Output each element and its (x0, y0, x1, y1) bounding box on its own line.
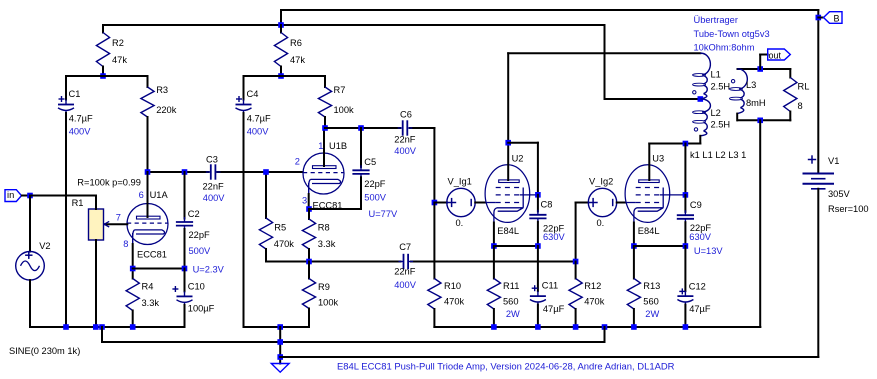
resistor R13 (627, 246, 640, 327)
wire secondary to ground (x=760.2) (759, 120, 761, 327)
node junction (685.4,143.5) (683, 141, 689, 147)
svg-text:2: 2 (295, 157, 300, 167)
pin 7 (U1A grid) (116, 213, 121, 223)
wire V_Ig1 to U2 grid (475, 202, 485, 204)
svg-text:R6: R6 (290, 38, 302, 48)
pin 8 (U1A cathode) (123, 239, 128, 249)
resistor R2 (96, 25, 109, 76)
wire U1A cathode row (y=268.5) (133, 268, 185, 270)
svg-text:0.: 0. (456, 218, 464, 228)
value 47k (R2) (112, 55, 127, 65)
wire jog x=102 down (101, 327, 103, 342)
svg-text:47k: 47k (112, 55, 127, 65)
node junction (575.6,327) (573, 324, 579, 330)
rating 400V (C3) (203, 193, 226, 203)
svg-text:22pF: 22pF (364, 179, 386, 189)
svg-text:1: 1 (318, 141, 323, 151)
pentode U2 (485, 165, 538, 223)
node junction (280.2,357) (277, 354, 283, 360)
svg-text:C3: C3 (206, 155, 218, 165)
node junction (604.5,327) (602, 324, 608, 330)
triode U1A (127, 204, 168, 245)
node junction (493.9,246) (491, 243, 497, 249)
svg-text:2.5H: 2.5H (711, 82, 731, 92)
node junction (434.4,202.5) (432, 200, 438, 206)
value 2.5H (L1) (711, 82, 731, 92)
node junction (280.2,327) (277, 324, 283, 330)
node junction (685.4,194.9) (683, 192, 689, 198)
svg-text:400V: 400V (69, 127, 92, 137)
U2 plate lead (507, 143, 509, 180)
label V_Ig2 (589, 177, 613, 187)
node junction (147.5,172) (145, 169, 151, 175)
wire B+ second rail (y=25) (103, 24, 605, 26)
U1B cathode lead (308, 183, 310, 209)
node junction (66,327) (63, 324, 69, 330)
node junction (493.9,327) (491, 324, 497, 330)
node junction (685.4,327) (683, 324, 689, 330)
svg-text:22pF: 22pF (189, 230, 211, 240)
wire C6 out down (x=434.4) (433, 128, 435, 203)
rating 500V (C2) (189, 246, 212, 256)
svg-text:U1A: U1A (150, 190, 169, 200)
value 0. (V_Ig1) (456, 218, 464, 228)
svg-text:V_Ig2: V_Ig2 (589, 177, 613, 187)
svg-text:305V: 305V (828, 189, 851, 199)
inductor L2 (693, 99, 711, 144)
label R4 (142, 282, 154, 292)
value 8 (RL) (798, 101, 803, 111)
capacitor C5 (352, 128, 369, 209)
wire U2 plate node up (x=508.2) (507, 53, 509, 142)
svg-text:R7: R7 (334, 85, 346, 95)
voltage source V_Ig1 (447, 188, 475, 216)
wire ground rail left (y=327) (30, 326, 185, 328)
op text U=2.3V (193, 264, 225, 274)
svg-text:470k: 470k (274, 239, 295, 249)
wire C1-R3 (y=76) (66, 75, 148, 77)
resistor R3 (141, 76, 154, 172)
svg-text:E84L ECC81 Push-Pull Triode Am: E84L ECC81 Push-Pull Triode Amp, Version… (337, 361, 675, 372)
rating 400V (C4) (247, 127, 270, 137)
wire B+ right drop (x=818.3) (817, 10, 819, 172)
label R8 (318, 223, 330, 233)
rating 630V (C9) (689, 232, 712, 242)
svg-text:U=2.3V: U=2.3V (193, 264, 225, 274)
resistor R10 (428, 203, 441, 328)
svg-text:0.: 0. (597, 218, 605, 228)
svg-text:SINE(0 230m 1k): SINE(0 230m 1k) (9, 346, 80, 356)
svg-text:500V: 500V (189, 246, 212, 256)
wire secondary top (y=69) (738, 68, 791, 70)
wire in node to R1 top (30, 195, 96, 197)
L3 phase dot (731, 80, 734, 83)
value 560 (R13) (643, 297, 659, 307)
svg-text:220k: 220k (156, 105, 177, 115)
svg-text:R8: R8 (318, 223, 330, 233)
resistor R6 (274, 25, 287, 76)
rating 400V (C1) (69, 127, 92, 137)
svg-text:8: 8 (798, 101, 803, 111)
node junction (361,128) (358, 125, 364, 131)
capacitor C10 (polar) (172, 269, 192, 328)
node junction (281,25) (278, 22, 284, 28)
wire ground rail low (y=357) (280, 356, 818, 358)
value 100k (R7) (334, 105, 355, 115)
wire C4/R9 ground segment (y=327) (244, 326, 310, 328)
value 2.5H (L2) (711, 120, 731, 130)
wire V_Ig2 to U3 grid (617, 202, 626, 204)
label R11 (503, 281, 519, 291)
inductor L3 (730, 69, 748, 120)
label R3 (156, 85, 168, 95)
pin 2 (U1B grid) (295, 157, 300, 167)
label C4 (247, 89, 259, 99)
svg-text:630V: 630V (543, 232, 566, 242)
svg-text:400V: 400V (203, 193, 226, 203)
label R10 (444, 281, 461, 291)
U1A plate lead (147, 172, 149, 217)
label C5 (364, 157, 376, 167)
pin 6 (U1A plate) (139, 190, 144, 200)
wire V_Ig1 left lead (434, 202, 447, 204)
svg-text:C2: C2 (188, 209, 200, 219)
wire V_Ig2 left lead (576, 202, 589, 204)
wire U3 plate row (y=143.5) (649, 143, 700, 145)
label L1 (711, 70, 721, 80)
svg-text:U=13V: U=13V (694, 246, 723, 256)
value 470k (R12) (584, 297, 605, 307)
wire in-flag to node (22, 195, 30, 197)
svg-text:U2: U2 (512, 153, 524, 163)
U3 cathode lead (633, 223, 635, 247)
svg-text:560: 560 (643, 297, 659, 307)
node junction (633.9,246) (631, 243, 637, 249)
resistor R7 (318, 76, 331, 128)
svg-text:R11: R11 (503, 281, 519, 291)
svg-text:2W: 2W (645, 309, 659, 319)
rating 2W (R13) (645, 309, 659, 319)
svg-text:630V: 630V (689, 232, 712, 242)
capacitor C3 (206, 164, 221, 179)
rating 2W (R11) (506, 309, 520, 319)
comment Übertrager (694, 15, 738, 25)
svg-text:E84L: E84L (638, 226, 660, 236)
svg-text:L3: L3 (746, 80, 756, 90)
label R9 (318, 282, 330, 292)
param R=100k p=0.99 (R1) (77, 177, 141, 187)
svg-text:4.7µF: 4.7µF (247, 114, 271, 124)
node junction (103,76) (100, 73, 106, 79)
svg-text:R5: R5 (274, 223, 286, 233)
title comment E84L ECC81 Push-Pull Triode Amp (337, 361, 675, 372)
svg-text:R=100k p=0.99: R=100k p=0.99 (77, 177, 141, 187)
node junction (760.2,120.3) (757, 118, 763, 124)
node junction (280.2,342) (277, 339, 283, 345)
svg-text:L1: L1 (711, 70, 721, 80)
label C2 (188, 209, 200, 219)
svg-text:4.7µF: 4.7µF (69, 114, 93, 124)
svg-text:Tube-Town otg5v3: Tube-Town otg5v3 (694, 29, 770, 39)
label R13 (643, 281, 660, 291)
svg-text:R9: R9 (318, 282, 330, 292)
value 22nF (C3) (203, 182, 225, 192)
rating 630V (C8) (543, 232, 566, 242)
svg-text:3: 3 (302, 196, 307, 206)
svg-text:22nF: 22nF (394, 134, 416, 144)
label C3 (206, 155, 218, 165)
value 22pF (C9) (690, 223, 712, 233)
label C11 (542, 281, 558, 291)
wire U2 cathode row (y=246) (494, 245, 538, 247)
svg-text:C5: C5 (364, 157, 376, 167)
svg-text:22nF: 22nF (394, 266, 416, 276)
wire B+ branch down (x=604.5) (604, 25, 606, 99)
wire U2 plate to screen jog (508, 143, 538, 195)
resistor R5 (259, 172, 272, 262)
value 8mH (L3) (746, 98, 766, 108)
wire ground rail mid-right (y=327) (434, 326, 760, 328)
value 220k (R3) (156, 105, 177, 115)
svg-text:B: B (834, 13, 840, 23)
value 22pF (C8) (543, 223, 565, 233)
potentiometer R1 (89, 196, 110, 328)
value 3.3k (R8) (318, 239, 336, 249)
label C7 (399, 242, 411, 252)
svg-text:L2: L2 (711, 108, 721, 118)
L1 phase dot (693, 91, 696, 94)
value 22nF (C7) (394, 266, 416, 276)
svg-text:100µF: 100µF (188, 304, 215, 314)
svg-text:out: out (769, 50, 782, 60)
svg-text:R4: R4 (142, 282, 154, 292)
svg-text:400V: 400V (394, 146, 417, 156)
wire out stub (760, 55, 768, 70)
comment 10kOhm:8ohm (694, 43, 755, 53)
node junction (132.7,268.5) (130, 266, 136, 272)
wire cathode node row (y=261.5) (266, 261, 576, 263)
value 100µF (C10) (188, 304, 215, 314)
wire jog x=604.5 down (604, 327, 606, 342)
svg-text:V1: V1 (828, 156, 839, 166)
node junction (325,128) (322, 125, 328, 131)
resistor R4 (126, 269, 139, 328)
label C6 (400, 110, 412, 120)
label V2 (39, 241, 50, 251)
svg-text:E84L: E84L (497, 226, 519, 236)
label U1B (329, 141, 347, 151)
label U3 (652, 153, 664, 163)
capacitor C2 (176, 172, 193, 269)
comment Tube-Town otg5v3 (694, 29, 770, 39)
svg-text:V2: V2 (39, 241, 50, 251)
node junction (266,172) (263, 169, 269, 175)
label E84L (U2) (497, 226, 519, 236)
wire C4-R7 (y=76) (244, 75, 326, 77)
node junction (633.9,327) (631, 324, 637, 330)
svg-text:C12: C12 (689, 282, 706, 292)
wire U3 cathode row (y=246) (634, 245, 686, 247)
pin 3 (U1B cathode) (302, 196, 307, 206)
wire ground column x=280.2 (279, 327, 281, 364)
node junction (309,209) (306, 206, 312, 212)
L2 phase dot (694, 128, 697, 131)
label C10 (188, 281, 205, 291)
label E84L (U3) (638, 226, 660, 236)
label ECC81 (U1A) (137, 250, 167, 260)
label V_Ig1 (448, 177, 472, 187)
label ECC81 (U1B) (313, 201, 343, 211)
value 305V (V1) (828, 189, 851, 199)
svg-text:8: 8 (123, 239, 128, 249)
svg-text:6: 6 (139, 190, 144, 200)
svg-text:C8: C8 (541, 200, 553, 210)
value 47µF (C12) (689, 304, 711, 314)
label RL (798, 82, 810, 92)
node junction (184.5,268.5) (182, 266, 188, 272)
wire V1 bottom (x=818.3) (817, 189, 819, 357)
value 22pF (C5) (364, 179, 386, 189)
voltage source V_Ig2 (588, 188, 616, 216)
svg-text:R12: R12 (584, 281, 601, 291)
svg-text:U=77V: U=77V (369, 209, 398, 219)
param SINE(0 230m 1k) (V2) (9, 346, 80, 356)
voltage source V2 (16, 196, 45, 328)
svg-text:ECC81: ECC81 (137, 250, 167, 260)
svg-text:U1B: U1B (329, 141, 347, 151)
capacitor C1 (polar) (58, 76, 74, 327)
label V1 (828, 156, 839, 166)
svg-text:C11: C11 (542, 281, 558, 291)
svg-text:3.3k: 3.3k (142, 298, 160, 308)
capacitor C4 (polar) (236, 76, 252, 327)
rating 400V (C6) (394, 146, 417, 156)
svg-text:in: in (7, 190, 14, 200)
svg-text:RL: RL (798, 82, 810, 92)
value 3.3k (R4) (142, 298, 160, 308)
svg-text:C7: C7 (399, 242, 411, 252)
node junction (508.2,142.7) (505, 140, 511, 146)
value 47µF (C11) (543, 304, 565, 314)
capacitor C9 (677, 195, 694, 246)
flag in (input port) (5, 190, 22, 202)
node junction (537.9,194.8) (535, 192, 541, 198)
svg-text:10kOhm:8ohm: 10kOhm:8ohm (694, 43, 755, 53)
node junction (685.4,246) (683, 243, 689, 249)
value 4.7µF (C1) (69, 114, 93, 124)
svg-text:C4: C4 (247, 89, 259, 99)
label R5 (274, 223, 286, 233)
capacitor C6 (398, 120, 413, 135)
label R12 (584, 281, 601, 291)
node junction (281,76) (278, 73, 284, 79)
label C1 (69, 89, 81, 99)
param Rser=100 (V1) (828, 204, 869, 214)
label R7 (334, 85, 346, 95)
svg-text:R2: R2 (112, 38, 124, 48)
capacitor C7 (399, 254, 414, 269)
U1B plate lead (323, 128, 325, 166)
coupling statement k1 L1 L2 L3 1 (690, 150, 746, 160)
svg-text:R3: R3 (156, 85, 168, 95)
svg-text:C9: C9 (690, 200, 702, 210)
resistor RL (784, 69, 797, 120)
svg-text:22nF: 22nF (203, 182, 225, 192)
svg-text:R10: R10 (444, 281, 461, 291)
svg-text:400V: 400V (394, 280, 417, 290)
capacitor C11 (polar) (530, 246, 546, 327)
resistor R11 (487, 246, 500, 327)
node junction (575.6,261.5) (573, 259, 579, 265)
svg-text:C6: C6 (400, 110, 412, 120)
node junction (95.8,327) (93, 324, 99, 330)
inductor L1 (693, 53, 711, 99)
svg-text:500V: 500V (364, 193, 387, 203)
svg-text:47k: 47k (290, 55, 305, 65)
svg-text:470k: 470k (584, 297, 605, 307)
svg-text:100k: 100k (318, 298, 339, 308)
svg-text:470k: 470k (444, 297, 465, 307)
label R1 (72, 198, 84, 208)
pin 1 (U1B plate) (318, 141, 323, 151)
svg-text:47µF: 47µF (689, 304, 711, 314)
wire B+ top rail (y=10) (281, 9, 818, 11)
svg-text:47µF: 47µF (543, 304, 565, 314)
svg-text:3.3k: 3.3k (318, 239, 336, 249)
node junction (30,195.5) (27, 193, 33, 199)
resistor R8 (302, 209, 315, 262)
flag B (net label) (824, 12, 843, 24)
wire R7 to C6 (y=128) (325, 127, 434, 129)
triode U1B (303, 153, 344, 194)
wire U1B cathode to C5 (y=209) (309, 208, 361, 210)
svg-text:R13: R13 (643, 281, 660, 291)
svg-text:Rser=100: Rser=100 (828, 204, 869, 214)
wire R1 wiper to U1A grid (105, 223, 127, 225)
wire ground rail mid (y=342) (102, 341, 605, 343)
value 4.7µF (C4) (247, 114, 271, 124)
rating 500V (C5) (364, 193, 387, 203)
svg-text:2.5H: 2.5H (711, 120, 731, 130)
op text U=13V (694, 246, 723, 256)
value 0. (V_Ig2) (597, 218, 605, 228)
op text U=77V (369, 209, 398, 219)
label L3 (746, 80, 756, 90)
node junction (102,327) (99, 324, 105, 330)
U2 cathode lead (493, 223, 495, 247)
svg-text:Übertrager: Übertrager (694, 15, 738, 25)
wire to xfmr center tap (y=99) (605, 98, 701, 100)
svg-text:2W: 2W (506, 309, 520, 319)
flag out (output port) (768, 49, 791, 60)
node junction (818.3,17.5) (816, 15, 822, 21)
label C9 (690, 200, 702, 210)
capacitor C12 (polar) (677, 246, 693, 327)
svg-text:U3: U3 (652, 153, 664, 163)
svg-text:100k: 100k (334, 105, 355, 115)
svg-text:7: 7 (116, 213, 121, 223)
pentode U3 (625, 165, 685, 223)
wire U3 screen column (x=685.4) (684, 144, 686, 195)
node junction (537.9,246) (535, 243, 541, 249)
label R6 (290, 38, 302, 48)
wire V_Ig2 column (x=575.6) (575, 203, 577, 262)
ground symbol (271, 364, 289, 373)
capacitor C8 (529, 195, 546, 246)
value 560 (R11) (503, 297, 519, 307)
node junction (184.5,172) (182, 169, 188, 175)
wire B+ rail link at x=281 (280, 10, 282, 25)
